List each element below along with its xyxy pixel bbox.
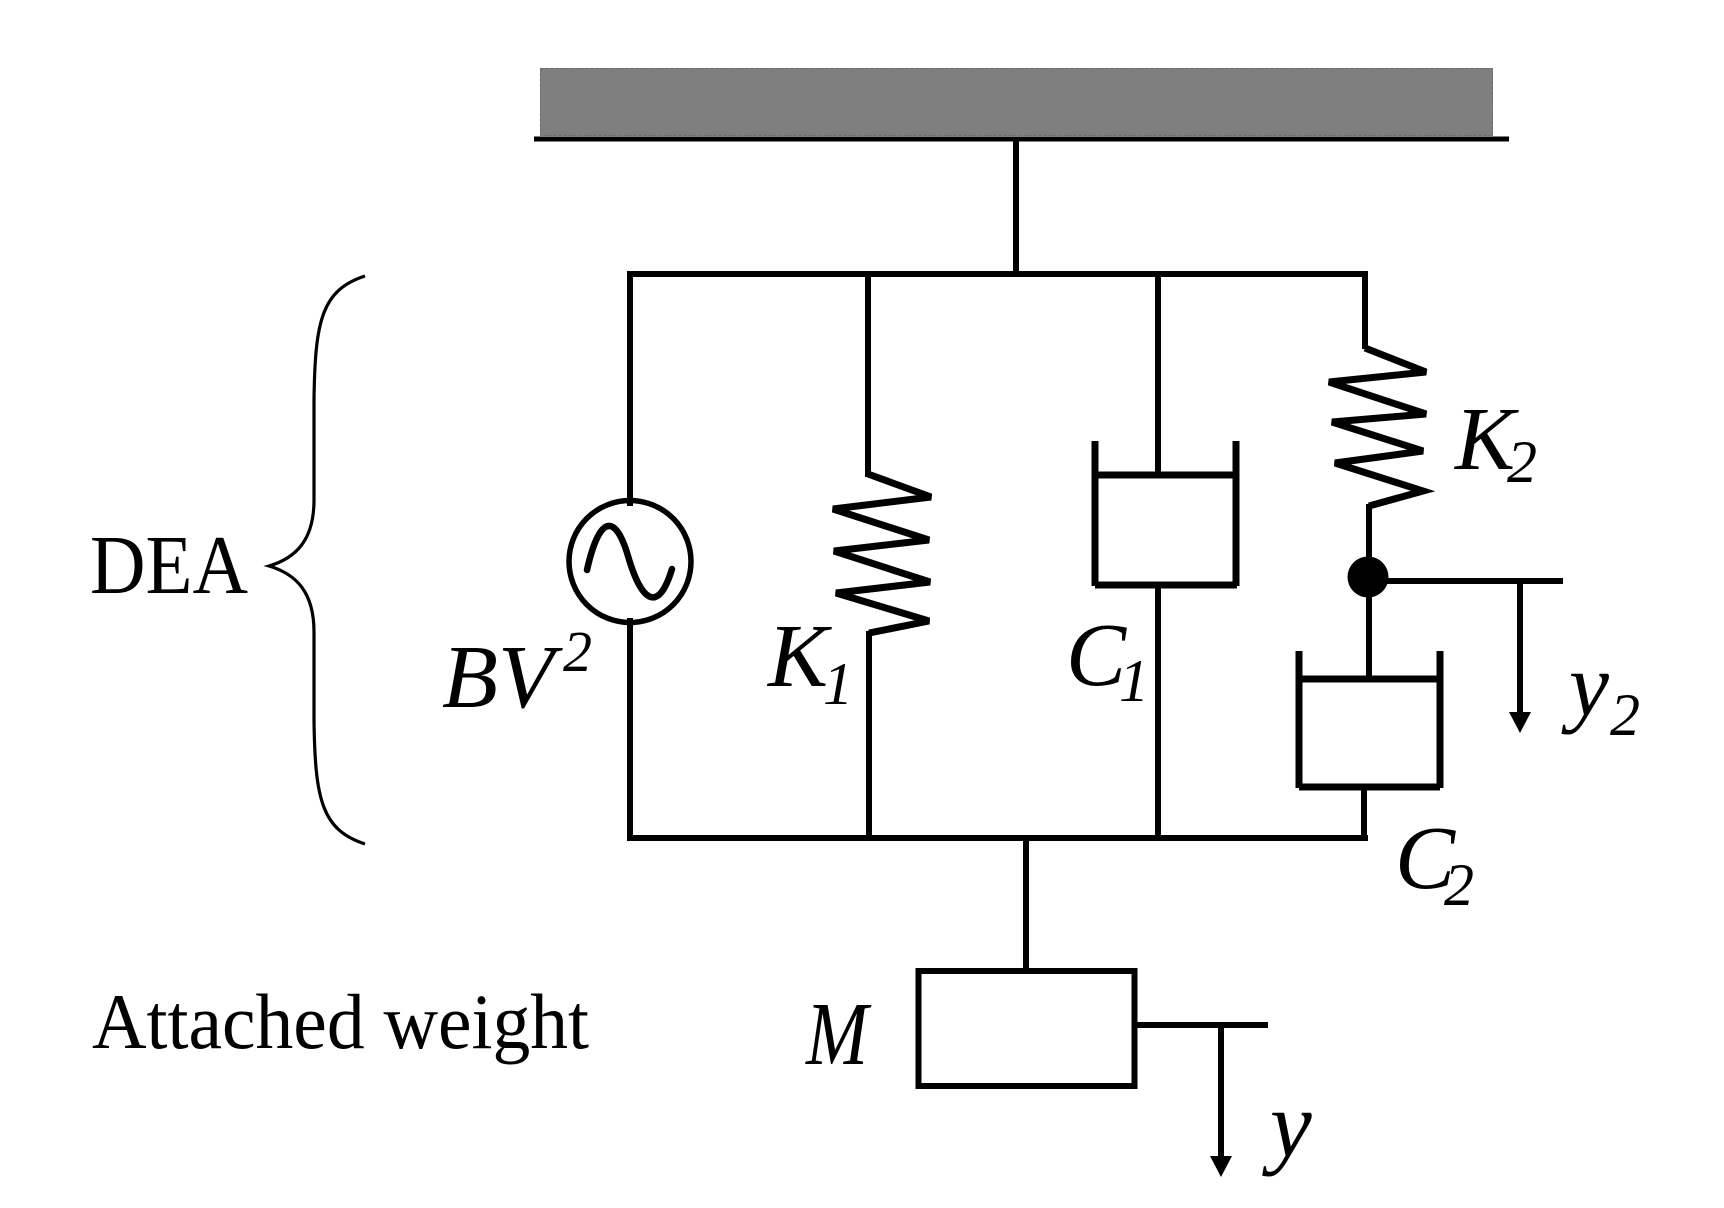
svg-text:2: 2 [1507,429,1537,495]
svg-text:1: 1 [823,651,853,717]
svg-text:1: 1 [1119,648,1149,714]
svg-text:BV: BV [442,628,563,727]
svg-text:2: 2 [1444,852,1474,918]
svg-text:M: M [804,985,872,1084]
svg-text:y: y [1262,1073,1312,1177]
svg-text:y: y [1561,636,1609,735]
svg-text:2: 2 [563,619,592,684]
svg-text:Attached weight: Attached weight [92,978,589,1065]
svg-text:DEA: DEA [90,519,248,612]
svg-text:C: C [1066,606,1127,705]
svg-text:2: 2 [1610,682,1640,748]
